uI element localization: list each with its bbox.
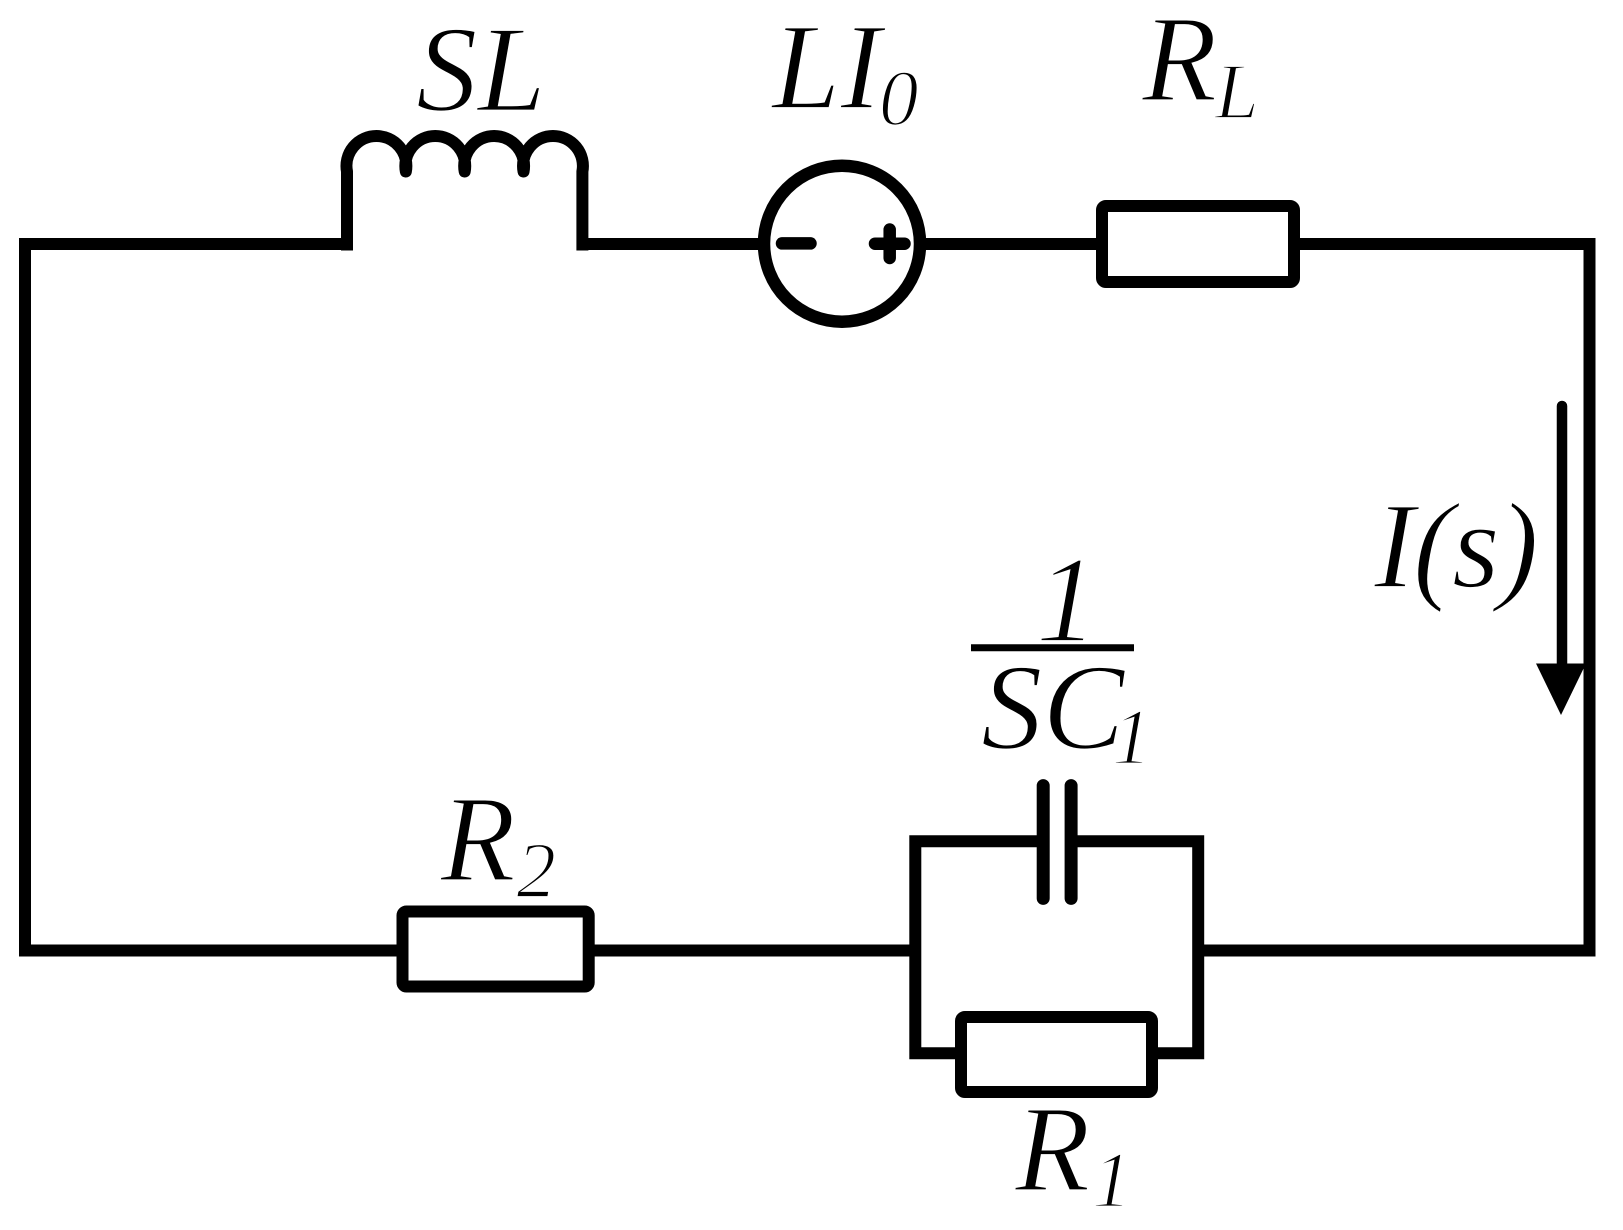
wire: top-right segment, right side, bottom-right segment bbox=[582, 244, 1589, 951]
wire: top-left segment, left side, bottom-left segment bbox=[25, 244, 915, 951]
svg-text:1: 1 bbox=[1092, 1138, 1132, 1225]
svg-text:LI: LI bbox=[770, 0, 886, 135]
capacitor C1 plates bbox=[1043, 786, 1071, 899]
voltage source U1 (LI0) bbox=[764, 166, 920, 322]
resistor RL bbox=[1102, 206, 1294, 282]
svg-text:0: 0 bbox=[879, 56, 919, 143]
resistor R1 bbox=[961, 1017, 1152, 1092]
svg-text:I(s): I(s) bbox=[1373, 477, 1537, 614]
plus sign bbox=[875, 230, 905, 259]
svg-text:SL: SL bbox=[416, 0, 546, 137]
svg-text:1: 1 bbox=[1112, 695, 1152, 782]
svg-text:R: R bbox=[1014, 1081, 1090, 1218]
svg-text:R: R bbox=[1141, 0, 1217, 128]
resistor R2 bbox=[403, 912, 589, 987]
svg-text:L: L bbox=[1214, 49, 1259, 136]
current arrow I(s) bbox=[1557, 406, 1568, 668]
parallel box bbox=[915, 841, 1198, 1053]
svg-text:2: 2 bbox=[517, 828, 557, 915]
svg-text:R: R bbox=[440, 771, 516, 908]
svg-text:SC: SC bbox=[981, 639, 1127, 776]
minus sign bbox=[782, 237, 811, 250]
inductor SL bbox=[346, 136, 582, 250]
